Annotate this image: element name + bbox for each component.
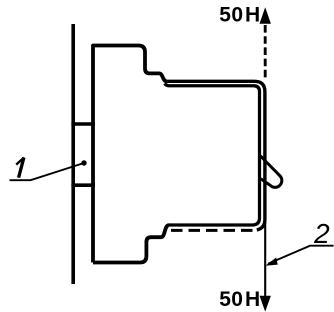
clip outer surface: top line, right corner, outer vertical, bottom corner start <box>166 81 265 230</box>
bottom force arrowhead <box>260 296 271 312</box>
leader line 2 with arrow <box>268 246 334 264</box>
svg-text:Н: Н <box>245 4 260 27</box>
mounting tick lower <box>71 183 95 187</box>
force line solid lower <box>264 222 266 298</box>
fixture 1 bottom edge, step up <box>93 225 169 262</box>
clip latch hook <box>261 157 282 188</box>
top force arrowhead <box>260 7 271 24</box>
clip inner surface: bottom solid line, inner vertical, top inner line <box>165 84 260 226</box>
svg-text:50: 50 <box>219 4 243 27</box>
svg-text:2: 2 <box>313 218 330 249</box>
dashed deflected bottom line <box>171 229 256 232</box>
label 1 <box>16 158 24 165</box>
force line dashed upper <box>264 25 267 81</box>
leader line 1 with dot <box>10 163 85 180</box>
wall line <box>71 24 75 284</box>
svg-text:50: 50 <box>219 288 243 311</box>
svg-text:Н: Н <box>245 288 260 311</box>
mounting tick upper <box>71 122 95 126</box>
fixture 1 body: left edge, top edge, step down <box>93 46 167 263</box>
